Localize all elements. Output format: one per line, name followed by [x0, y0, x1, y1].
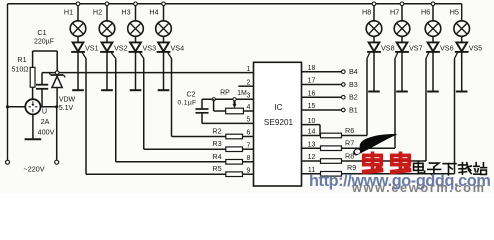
svg-text:510Ω: 510Ω — [12, 67, 29, 74]
watermark red chong character 1 — [362, 152, 383, 173]
svg-text:H5: H5 — [450, 8, 459, 17]
svg-text:C2: C2 — [187, 92, 196, 99]
node bus junction at H8 column — [372, 2, 376, 6]
svg-text:R4: R4 — [212, 152, 221, 161]
ground VS2 cathode — [101, 89, 113, 91]
wire pin 10 to R6 node — [302, 124, 321, 126]
wire lamp H8 to thyristor VS8 — [373, 36, 375, 43]
thyristor VS8 — [369, 42, 380, 51]
wire R4 row — [116, 161, 226, 163]
watermark text dianzi xiazaizhan — [414, 162, 425, 173]
svg-text:400V: 400V — [38, 128, 55, 137]
wire lamp H2 to thyristor VS2 — [106, 36, 108, 43]
svg-text:6: 6 — [247, 130, 251, 137]
wire AC2 down to terminal — [56, 107, 58, 160]
lamp H3 — [128, 21, 144, 37]
wire +5V rail to IC pin 1 — [42, 72, 254, 74]
terminal AC input 2 — [55, 160, 59, 164]
svg-text:H4: H4 — [149, 8, 158, 17]
wire H6 column from bus to lamp — [432, 4, 434, 22]
ground VS6 cathode — [427, 91, 439, 93]
wire RP left branch — [213, 99, 215, 111]
ground VS5 cathode — [456, 91, 468, 93]
lamp H7 — [394, 21, 410, 37]
ground VS7 cathode — [396, 91, 408, 93]
svg-text:C1: C1 — [37, 28, 46, 37]
wire R4 to IC — [243, 161, 254, 163]
wire VS7 gate column to resistor row — [394, 60, 396, 149]
wire R6 to gate column — [342, 135, 368, 137]
resistor R6 — [321, 133, 342, 138]
wire R2 row — [172, 136, 226, 138]
wire VS2 cathode down — [106, 52, 108, 90]
wire VS4 gate column to IC row — [171, 60, 173, 137]
svg-text:R9: R9 — [347, 163, 356, 172]
wire lamp H1 to thyristor VS1 — [77, 36, 79, 43]
terminal B2 — [342, 95, 346, 99]
wire VS4 cathode down — [163, 52, 165, 90]
thyristor VS2 — [102, 42, 113, 51]
wire R2 to IC — [243, 136, 254, 138]
wire VS8 gate column to resistor row — [366, 60, 368, 136]
svg-text:VS1: VS1 — [85, 44, 99, 53]
lamp H1 — [70, 21, 86, 37]
svg-text:18: 18 — [308, 65, 316, 72]
wire H3 column from bus to lamp — [135, 4, 137, 22]
resistor R9 — [321, 172, 342, 177]
svg-text:SE9201: SE9201 — [264, 118, 294, 127]
resistor R4 — [226, 160, 243, 165]
wire top supply bus — [8, 3, 462, 5]
thyristor VS6 — [428, 42, 439, 51]
svg-text:7: 7 — [247, 142, 251, 149]
wire R1 top link to zener node — [32, 51, 34, 67]
wire pin 15 to terminal B1 — [302, 109, 342, 111]
node RP wiper junction — [233, 98, 236, 101]
svg-text:VS7: VS7 — [409, 44, 423, 53]
svg-text:5.1V: 5.1V — [59, 105, 74, 112]
svg-text:R7: R7 — [345, 139, 354, 148]
node bus junction at H3 column — [134, 2, 138, 6]
wire VS2 gate column to IC row — [115, 60, 117, 162]
watermark red chong character 2 — [390, 152, 411, 173]
wire VS5 gate column to resistor row — [454, 60, 456, 174]
resistor R3 — [226, 147, 243, 152]
svg-text:H8: H8 — [362, 8, 371, 17]
svg-text:www.eeworm.com: www.eeworm.com — [351, 180, 486, 193]
wire VS3 cathode down — [135, 52, 137, 90]
ground bridge negative — [25, 138, 42, 140]
svg-text:VS6: VS6 — [440, 44, 454, 53]
wire lamp H5 to thyristor VS5 — [461, 36, 463, 43]
wire VS6 gate column to resistor row — [425, 60, 427, 162]
lamp H8 — [366, 21, 382, 37]
wire H1 column from bus to lamp — [77, 4, 79, 22]
svg-text:VS4: VS4 — [171, 44, 185, 53]
ground VS1 cathode — [72, 89, 84, 91]
svg-text:5: 5 — [247, 117, 251, 124]
svg-text:17: 17 — [308, 78, 316, 85]
wire RP to pin 4 — [243, 110, 253, 112]
svg-text:R8: R8 — [345, 152, 354, 161]
svg-text:2: 2 — [247, 79, 251, 86]
svg-text:10: 10 — [308, 118, 316, 125]
svg-text:H2: H2 — [93, 8, 102, 17]
svg-text:B4: B4 — [349, 67, 358, 76]
wire lamp H6 to thyristor VS6 — [432, 36, 434, 43]
svg-text:H7: H7 — [390, 8, 399, 17]
svg-text:IC: IC — [274, 103, 282, 112]
node bus junction at H4 column — [162, 2, 166, 6]
zener diode VDW 5.1V — [56, 73, 58, 75]
terminal AC input 1 — [6, 160, 10, 164]
wire R1 bottom to bridge + — [32, 87, 34, 99]
ground VS8 cathode — [368, 91, 380, 93]
capacitor C1 220uF — [41, 73, 43, 85]
wire R9 to gate column — [342, 173, 455, 175]
svg-text:VS5: VS5 — [469, 44, 483, 53]
svg-text:R2: R2 — [212, 127, 221, 136]
wire R8 to gate column — [342, 160, 427, 162]
svg-text:4: 4 — [247, 104, 251, 111]
svg-text:RP: RP — [220, 90, 230, 97]
wire pin 16 to terminal B2 — [302, 96, 342, 98]
thyristor VS3 — [130, 42, 141, 51]
wire bridge + up / - down — [32, 98, 34, 100]
node RP left branch junction — [212, 98, 215, 101]
svg-text:16: 16 — [308, 90, 316, 97]
wire VS1 cathode down — [77, 52, 79, 90]
wire right end drop to H5 lamp — [461, 4, 463, 22]
potentiometer RP 1M — [226, 108, 244, 114]
resistor R8 — [321, 159, 342, 164]
wire lamp H3 to thyristor VS3 — [135, 36, 137, 43]
svg-text:B1: B1 — [349, 105, 358, 114]
thyristor VS5 — [456, 42, 467, 51]
lamp H5 — [454, 21, 470, 37]
svg-text:VDW: VDW — [59, 97, 76, 104]
resistor R1 — [30, 67, 35, 87]
node zener/rail junction — [55, 71, 59, 75]
wire R5 row — [86, 173, 226, 175]
svg-text:1: 1 — [247, 66, 251, 73]
wire R5 to IC — [243, 173, 254, 175]
wire pin row to R6 — [302, 135, 321, 137]
svg-text:14: 14 — [308, 129, 316, 136]
thyristor VS4 — [158, 42, 169, 51]
lamp H2 — [99, 21, 115, 37]
wire C2 to pin 5 — [202, 122, 254, 124]
wire pin row to R9 — [302, 173, 321, 175]
svg-text:~220V: ~220V — [24, 165, 45, 174]
svg-text:R6: R6 — [345, 126, 354, 135]
svg-text:12: 12 — [308, 154, 316, 161]
wire lamp H4 to thyristor VS4 — [163, 36, 165, 43]
thyristor VS7 — [397, 42, 408, 51]
ground VS3 cathode — [130, 89, 142, 91]
svg-text:1M: 1M — [237, 90, 247, 97]
resistor R5 — [226, 172, 243, 177]
wire left AC line down to terminal — [7, 4, 9, 160]
svg-text:H1: H1 — [64, 8, 73, 17]
watermark ink blob — [353, 134, 397, 156]
wire bridge left AC lead — [8, 106, 26, 108]
wire R3 to IC — [243, 148, 254, 150]
resistor R2 — [226, 134, 243, 139]
svg-text:B3: B3 — [349, 80, 358, 89]
svg-text:R3: R3 — [212, 139, 221, 148]
wire VS7 cathode down — [401, 52, 403, 92]
capacitor C2 0.1uF — [201, 99, 203, 109]
wire R7 to gate column — [342, 147, 396, 149]
node bus junction at H1 column — [76, 2, 80, 6]
svg-text:B2: B2 — [349, 93, 358, 102]
node bus junction at H2 column — [105, 2, 109, 6]
resistor R7 — [321, 146, 342, 151]
bridge rectifier U 2A 400V — [25, 99, 40, 114]
wire bridge right AC lead — [41, 106, 57, 108]
terminal B1 — [342, 108, 346, 112]
wire VS3 gate column to IC row — [143, 60, 145, 150]
wire VS6 cathode down — [432, 52, 434, 92]
op-amp U1: IC SE9201 box — [254, 62, 302, 186]
ground VS4 cathode — [158, 89, 170, 91]
svg-text:R1: R1 — [17, 55, 26, 64]
thyristor VS1 — [73, 42, 84, 51]
svg-text:3: 3 — [247, 92, 251, 99]
wire pin row to R7 — [302, 147, 321, 149]
wire VS8 cathode down — [373, 52, 375, 92]
svg-text:15: 15 — [308, 103, 316, 110]
svg-text:0.1µF: 0.1µF — [177, 100, 196, 107]
wire pin 3 line — [202, 98, 254, 100]
svg-text:H3: H3 — [121, 8, 130, 17]
svg-text:220µF: 220µF — [34, 39, 54, 46]
wire pin 17 to terminal B3 — [302, 84, 342, 86]
wire H2 column from bus to lamp — [106, 4, 108, 22]
svg-text:R5: R5 — [212, 164, 221, 173]
svg-text:2A: 2A — [41, 117, 50, 126]
wire H7 column from bus to lamp — [401, 4, 403, 22]
lamp H4 — [156, 21, 172, 37]
wire lamp H7 to thyristor VS7 — [401, 36, 403, 43]
wire H8 column from bus to lamp — [373, 4, 375, 22]
wire VS5 cathode down — [461, 52, 463, 92]
node bus junction at H6 column — [431, 2, 435, 6]
wire R3 row — [144, 148, 226, 150]
node bus junction at H7 column — [400, 2, 404, 6]
svg-text:8: 8 — [247, 155, 251, 162]
svg-text:9: 9 — [247, 167, 251, 174]
node left AC junction — [6, 105, 9, 108]
wire VS1 gate column to IC row — [85, 60, 87, 175]
svg-text:H6: H6 — [421, 8, 430, 17]
terminal B4 — [342, 70, 346, 74]
svg-text:VS2: VS2 — [114, 44, 128, 53]
svg-text:VS8: VS8 — [381, 44, 395, 53]
terminal B3 — [342, 83, 346, 87]
svg-text:13: 13 — [308, 141, 316, 148]
wire H4 column from bus to lamp — [163, 4, 165, 22]
svg-text:VS3: VS3 — [143, 44, 157, 53]
wire pin 18 to terminal B4 — [302, 71, 342, 73]
node zener/C1 return junction — [55, 105, 58, 108]
svg-text:U: U — [42, 107, 47, 116]
wire pin 2 stub — [238, 85, 253, 87]
lamp H6 — [425, 21, 441, 37]
wire pin row to R8 — [302, 160, 321, 162]
